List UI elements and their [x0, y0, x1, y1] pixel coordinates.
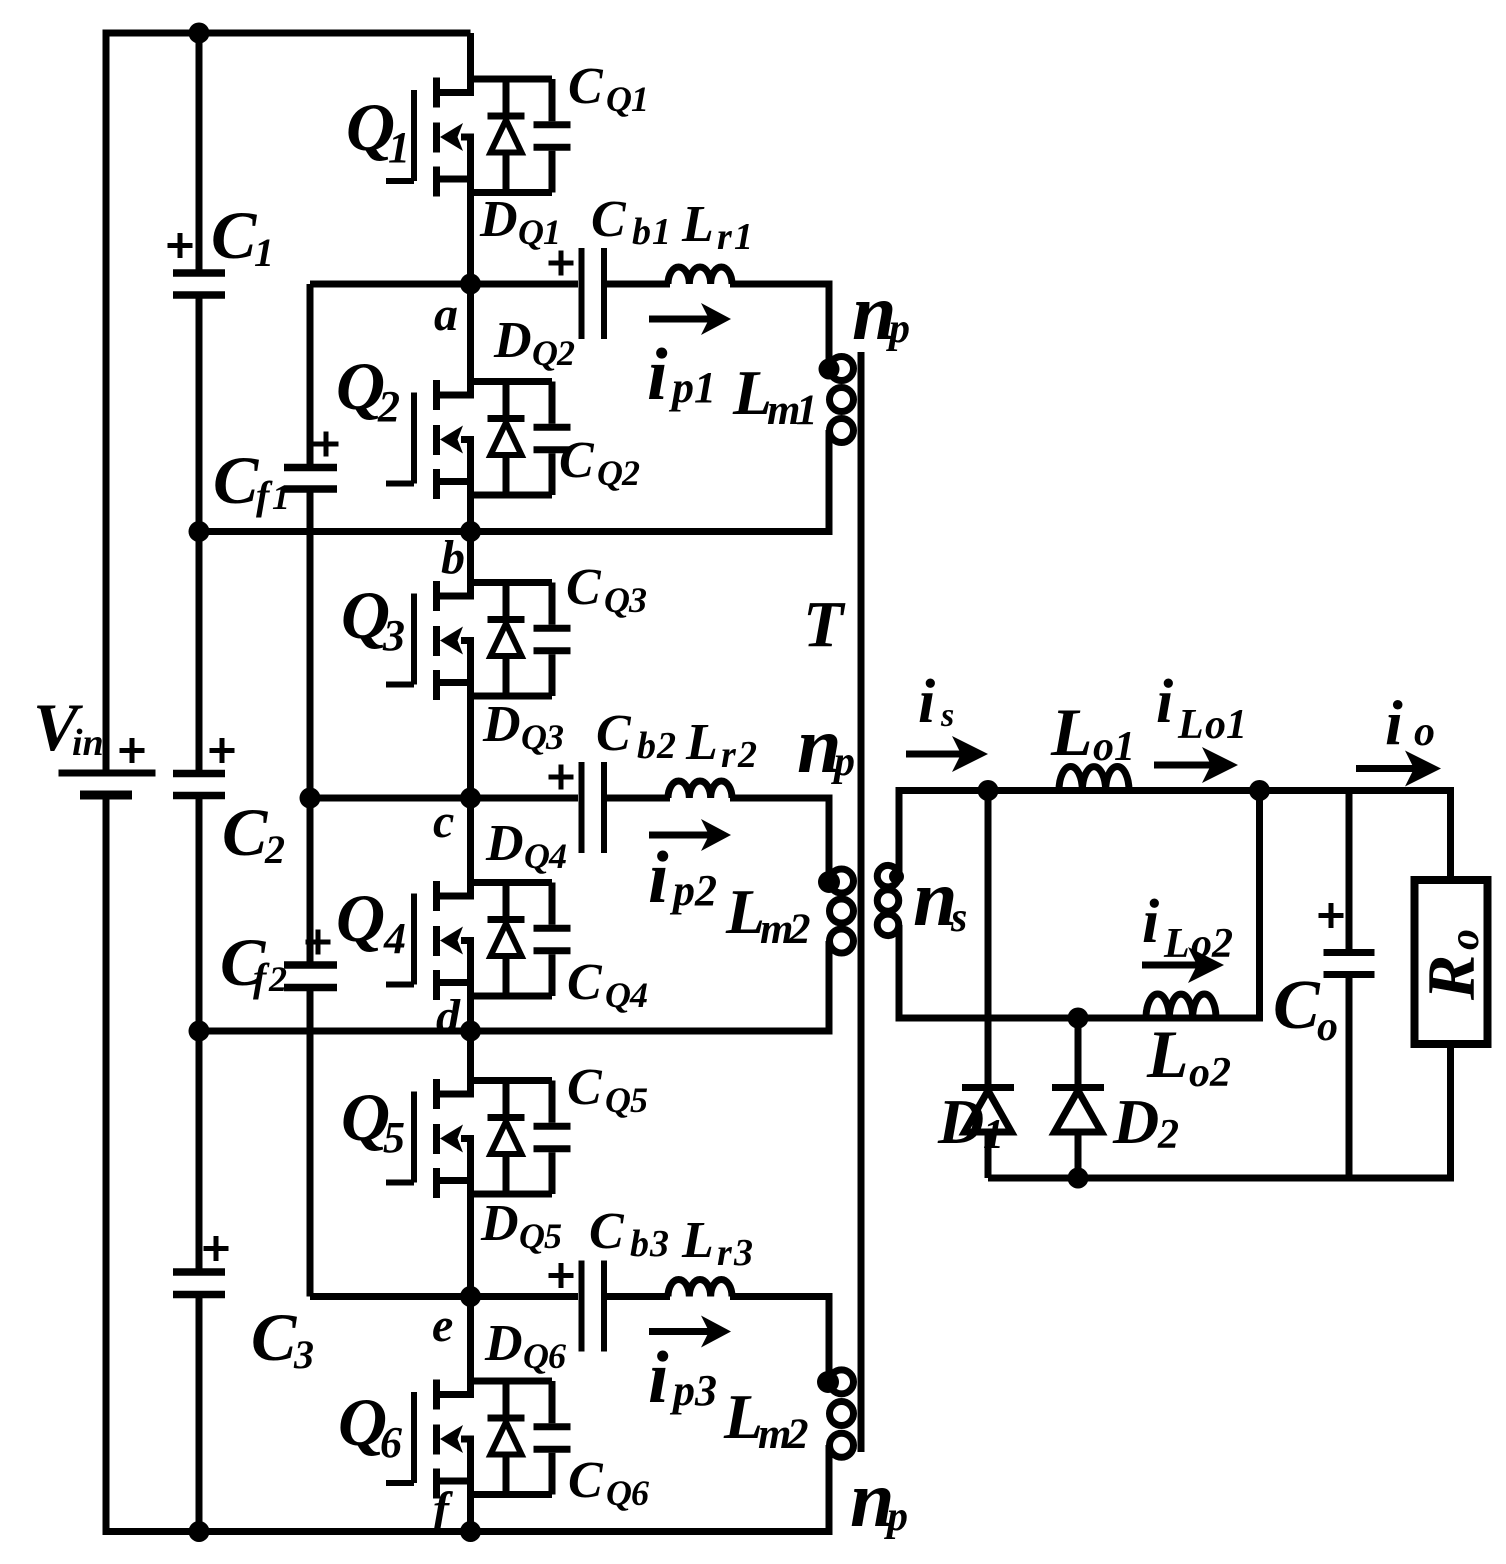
label np (top) [852, 269, 910, 357]
wire left input rail (upper) [103, 30, 110, 770]
label Lm1 [732, 357, 818, 434]
resistor Ro (load) [1415, 880, 1488, 1044]
svg-text:L: L [1163, 921, 1190, 967]
svg-text:4: 4 [548, 836, 567, 876]
wire Q6 snubber bottom rail [471, 1491, 553, 1498]
wire C rail seg3 [196, 799, 203, 1269]
svg-text:p: p [884, 1494, 908, 1540]
wire Q2 source to Q3 drain [467, 440, 474, 600]
inductor Lr2 (resonant inductor) [668, 781, 732, 798]
junction dot node b [460, 521, 481, 542]
svg-text:p: p [668, 363, 694, 412]
svg-text:5: 5 [544, 1216, 562, 1256]
wire Q3 snubber top rail [471, 579, 553, 586]
svg-text:i: i [918, 668, 935, 736]
label Q4 [336, 880, 406, 963]
svg-text:D: D [482, 696, 521, 753]
svg-text:o: o [1093, 724, 1114, 770]
inductor Lr3 (resonant inductor) [668, 1280, 732, 1297]
wire Cb2 to Lr2 [607, 795, 670, 802]
svg-text:1: 1 [1114, 724, 1135, 770]
svg-text:3: 3 [694, 1366, 717, 1415]
wire node a (Cf1 to switch rail) [310, 281, 471, 288]
wire secondary winding top lead [896, 787, 903, 877]
diode DQ6 (body diode of Q6) [488, 1381, 525, 1495]
wire secondary top rail [899, 787, 1454, 794]
current arrow iLo2 [1142, 947, 1224, 983]
label Cf1 [213, 442, 290, 518]
svg-text:2: 2 [1211, 921, 1233, 967]
wire Lo2 branch [1078, 1015, 1263, 1022]
wire Q4 source to Q5 drain [467, 941, 474, 1098]
wire node e (Cf2 to Cb3) [310, 1293, 578, 1300]
svg-text:Q: Q [519, 1216, 545, 1256]
capacitor Cb2 (blocking cap) [582, 762, 605, 853]
polarity dot np2 [818, 871, 840, 893]
wire Lo1 node down to Lo2 [1256, 791, 1263, 1019]
svg-text:1: 1 [388, 123, 410, 172]
svg-text:b: b [637, 725, 656, 767]
polarity + of Co [1319, 903, 1344, 928]
svg-text:D: D [485, 815, 524, 872]
svg-text:s: s [940, 697, 954, 734]
svg-text:4: 4 [629, 975, 648, 1015]
svg-text:C: C [591, 191, 627, 248]
polarity + of Cf1 [314, 432, 339, 457]
svg-text:3: 3 [649, 1223, 669, 1265]
svg-text:Q: Q [606, 79, 632, 119]
svg-text:Q: Q [597, 453, 623, 493]
svg-text:D: D [484, 1315, 523, 1372]
wire left input rail (lower) [103, 799, 110, 1536]
capacitor CQ4 (parallel capacitor of Q4) [534, 883, 571, 997]
wire Lr3 to primary winding [730, 1297, 829, 1383]
diode DQ5 (body diode of Q5) [488, 1081, 525, 1195]
wire Cb3 to Lr3 [607, 1293, 670, 1300]
svg-text:e: e [432, 1299, 453, 1352]
svg-text:2: 2 [788, 906, 811, 953]
diode DQ1 (body diode of Q1) [488, 79, 525, 193]
junction dot node d [460, 1021, 481, 1042]
node d [436, 990, 461, 1043]
polarity + of Cb2 [549, 765, 574, 790]
current arrow io [1356, 751, 1441, 787]
label D1 [937, 1086, 1004, 1158]
wire Q1 drain [467, 33, 474, 96]
transistor Q4 (MOSFET) [386, 881, 474, 1000]
svg-text:Q: Q [605, 1080, 631, 1120]
wire secondary bottom-left rail [896, 1015, 1079, 1022]
svg-text:3: 3 [733, 1232, 753, 1274]
capacitor Cb1 (blocking cap) [582, 248, 605, 339]
label is [918, 668, 954, 736]
wire Cf rail seg1 [307, 284, 314, 464]
wire Q2 snubber bottom rail [471, 492, 553, 499]
svg-text:2: 2 [377, 382, 400, 431]
label Q1 [346, 89, 410, 172]
svg-text:o: o [1442, 929, 1488, 950]
label CQ3 [566, 559, 647, 620]
svg-text:p: p [831, 739, 855, 785]
capacitor Co (output cap) [1324, 791, 1375, 1179]
svg-text:C: C [211, 197, 257, 273]
svg-text:2: 2 [656, 725, 676, 767]
svg-text:r: r [717, 1232, 733, 1274]
capacitor C3 [173, 1272, 225, 1295]
svg-text:o: o [1189, 1050, 1210, 1096]
svg-text:1: 1 [543, 212, 561, 252]
wire Cf rail seg3 [307, 991, 314, 1297]
wire Q5 source to Q6 drain [467, 1139, 474, 1399]
label np (bottom) [850, 1456, 908, 1544]
capacitor Cf1 (flying cap a-c) [284, 468, 337, 490]
junction dot node e [460, 1286, 481, 1307]
svg-text:1: 1 [631, 79, 649, 119]
label io [1385, 687, 1435, 758]
wire Q3 source to Q4 drain [467, 641, 474, 900]
svg-text:C: C [567, 954, 603, 1011]
svg-text:T: T [803, 588, 846, 661]
svg-text:2: 2 [786, 1411, 809, 1458]
svg-text:C: C [568, 58, 604, 115]
label Lm2 [725, 876, 811, 953]
svg-text:in: in [72, 722, 104, 764]
junction dot node c [460, 788, 481, 809]
wire Cb1 to Lr1 [607, 281, 670, 288]
svg-text:L: L [1177, 702, 1204, 748]
svg-text:6: 6 [631, 1473, 649, 1513]
capacitor CQ1 (parallel capacitor of Q1) [534, 79, 571, 193]
svg-text:c: c [433, 795, 454, 848]
svg-text:1: 1 [254, 230, 274, 275]
node f [433, 1483, 453, 1536]
svg-text:a: a [434, 288, 458, 341]
diode D1 (rectifier) [962, 791, 1014, 1179]
label np (middle) [797, 702, 855, 790]
junction dot D2 / Lo2 [1068, 1008, 1089, 1029]
svg-text:Q: Q [523, 1336, 549, 1376]
label Q5 [341, 1079, 405, 1162]
svg-text:Q: Q [336, 880, 385, 956]
svg-text:1: 1 [983, 1112, 1004, 1158]
junction dot Lo1 / output rail [1249, 780, 1270, 801]
wire Q1 snubber top rail [471, 76, 553, 83]
svg-text:C: C [596, 705, 632, 762]
wire Q1 snubber bottom rail [471, 189, 553, 196]
label ip1 [647, 334, 716, 416]
svg-text:p: p [669, 866, 695, 915]
polarity dot np3 [817, 1371, 839, 1393]
svg-text:C: C [568, 1452, 604, 1509]
wire Q4 snubber bottom rail [471, 993, 553, 1000]
wire node to Cb3 [471, 1293, 579, 1300]
svg-text:L: L [1050, 694, 1093, 770]
svg-text:p: p [669, 1366, 695, 1415]
label Lm2 (third branch) [723, 1381, 809, 1458]
wire primary winding 2 to node d [826, 941, 833, 1031]
wire Q2 snubber top rail [471, 378, 553, 385]
wire output rail right (top) [1447, 791, 1454, 881]
transistor Q1 (MOSFET) [386, 78, 474, 197]
transformer primary winding np3 [830, 1370, 854, 1457]
polarity + of Cf2 [306, 930, 331, 955]
polarity dot np1 [819, 359, 840, 380]
wire Lr1 to primary winding [730, 284, 829, 369]
svg-text:i: i [647, 334, 668, 416]
capacitor CQ3 (parallel capacitor of Q3) [534, 583, 571, 697]
wire Q5 snubber top rail [471, 1077, 553, 1084]
svg-text:1: 1 [734, 216, 753, 258]
label DQ6 [484, 1315, 566, 1376]
wire Q4 snubber top rail [471, 879, 553, 886]
battery Vin (input source) [59, 773, 156, 795]
svg-text:b: b [632, 211, 651, 253]
label DQ4 [485, 815, 567, 876]
svg-text:o: o [1205, 702, 1226, 748]
svg-text:1: 1 [694, 363, 716, 412]
svg-text:5: 5 [630, 1080, 648, 1120]
junction dot top rail / C1 [189, 23, 210, 44]
transformer secondary winding ns [877, 865, 899, 935]
capacitor Cb3 (blocking cap) [582, 1261, 605, 1352]
svg-text:2: 2 [264, 827, 285, 872]
wire secondary bottom rail [988, 1175, 1454, 1182]
svg-text:r: r [717, 216, 733, 258]
svg-text:r: r [721, 734, 737, 776]
label Lr1 [681, 196, 753, 258]
svg-text:C: C [559, 432, 595, 489]
svg-text:Q: Q [524, 836, 550, 876]
polarity + of Vin [120, 738, 145, 763]
svg-text:D: D [493, 312, 532, 369]
label Cb2 [596, 705, 676, 767]
label ns [913, 855, 967, 943]
label iLo2 [1142, 888, 1233, 967]
inductor Lr1 (resonant inductor) [668, 267, 732, 284]
transistor Q3 (MOSFET) [386, 581, 474, 700]
wire node to Cb1 [471, 281, 579, 288]
inductor Lo2 (output inductor 2) [1146, 994, 1216, 1018]
svg-text:Q: Q [518, 212, 544, 252]
polarity + of Cb3 [549, 1263, 574, 1288]
label ip3 [648, 1337, 717, 1419]
current arrow ip1 [649, 303, 731, 335]
svg-text:L: L [685, 714, 718, 771]
wire Q1 source to Q2 drain [467, 137, 474, 399]
svg-text:Q: Q [604, 580, 630, 620]
svg-text:2: 2 [621, 453, 640, 493]
wire node b rail [199, 528, 833, 535]
wire bottom rail f [106, 1528, 833, 1535]
label CQ1 [568, 58, 649, 119]
wire primary winding 3 to node f [826, 1445, 833, 1532]
node b [441, 531, 465, 584]
junction dot node f [460, 1521, 481, 1542]
junction dot D1 / top rail [978, 780, 999, 801]
wire Q5 snubber bottom rail [471, 1191, 553, 1198]
svg-text:5: 5 [383, 1113, 405, 1162]
junction dot bottom rail / C3 [189, 1521, 210, 1542]
svg-text:D: D [479, 191, 518, 248]
label Lo1 [1050, 694, 1135, 770]
wire primary winding 1 to node b [826, 430, 833, 532]
label Lr2 [685, 714, 757, 776]
svg-text:p: p [886, 306, 910, 352]
svg-text:s: s [950, 895, 967, 941]
inductor Lo1 (output inductor 1) [1059, 767, 1129, 791]
label Lr3 [681, 1212, 753, 1274]
capacitor C2 [173, 774, 225, 796]
svg-text:Q: Q [605, 975, 631, 1015]
wire C rail seg2 [196, 299, 203, 771]
svg-text:i: i [648, 837, 669, 919]
polarity dot ns [889, 869, 904, 884]
wire Q6 source to node f [467, 1439, 474, 1532]
svg-text:3: 3 [628, 580, 647, 620]
svg-text:Q: Q [606, 1473, 632, 1513]
svg-text:3: 3 [293, 1332, 314, 1377]
label Vin [33, 689, 104, 765]
label C3 [251, 1299, 314, 1377]
wire secondary winding bottom lead [896, 925, 903, 1018]
wire node c (Cf rail to Cb2) [310, 795, 578, 802]
svg-text:Q: Q [532, 333, 558, 373]
svg-text:6: 6 [380, 1418, 402, 1467]
transformer T core [858, 352, 865, 1452]
transformer primary winding np2 (Lm2) [830, 869, 854, 953]
svg-text:L: L [681, 196, 714, 253]
svg-text:b: b [630, 1223, 649, 1265]
svg-text:6: 6 [548, 1336, 566, 1376]
capacitor CQ6 (parallel capacitor of Q6) [534, 1381, 571, 1495]
label DQ2 [493, 312, 575, 373]
label Cb3 [589, 1203, 669, 1265]
current arrow ip3 [649, 1316, 731, 1348]
svg-text:2: 2 [1157, 1112, 1179, 1158]
transformer primary winding np1 (Lm1) [830, 357, 854, 443]
junction dot c / Cf rail [300, 788, 321, 809]
svg-text:2: 2 [737, 734, 757, 776]
svg-text:C: C [566, 559, 602, 616]
wire output rail right (bottom) [1447, 1044, 1454, 1178]
svg-text:3: 3 [382, 611, 405, 660]
label C1 [211, 197, 274, 275]
svg-text:i: i [1142, 888, 1159, 956]
wire Lr2 to primary winding [730, 798, 829, 882]
svg-text:Q: Q [521, 717, 547, 757]
svg-text:2: 2 [1209, 1050, 1231, 1096]
polarity + of Cb1 [549, 251, 574, 276]
label D2 [1112, 1086, 1179, 1158]
current arrow iLo1 [1154, 747, 1238, 783]
transistor Q5 (MOSFET) [386, 1079, 474, 1198]
svg-text:D: D [1112, 1086, 1159, 1157]
diode D2 (rectifier) [1052, 1018, 1104, 1178]
diode DQ4 (body diode of Q4) [488, 883, 525, 997]
svg-text:D: D [480, 1195, 519, 1252]
junction dot D2 / bottom rail [1068, 1168, 1089, 1189]
label CQ2 [559, 432, 640, 493]
label CQ5 [567, 1059, 648, 1120]
label ip2 [648, 837, 717, 919]
svg-text:1: 1 [652, 211, 671, 253]
label Ro [1413, 929, 1489, 1001]
wire node d rail [199, 1028, 833, 1035]
label CQ6 [568, 1452, 649, 1513]
polarity + of C3 [204, 1236, 229, 1261]
junction dot d / C rail [189, 1021, 210, 1042]
svg-text:D: D [937, 1086, 984, 1157]
transistor Q2 (MOSFET) [386, 380, 474, 499]
svg-text:1: 1 [1226, 702, 1247, 748]
diode DQ2 (body diode of Q2) [488, 382, 525, 496]
svg-text:o: o [1191, 921, 1212, 967]
wire Q3 snubber bottom rail [471, 693, 553, 700]
wire C rail seg4 [196, 1298, 203, 1532]
wire node to Cb2 [471, 795, 579, 802]
junction dot b / C rail [189, 521, 210, 542]
svg-text:d: d [436, 990, 461, 1043]
label CQ4 [567, 954, 648, 1015]
polarity + of C2 [210, 738, 235, 763]
capacitor CQ5 (parallel capacitor of Q5) [534, 1081, 571, 1195]
svg-text:C: C [567, 1059, 603, 1116]
svg-text:C: C [251, 1299, 297, 1375]
svg-text:2: 2 [556, 333, 575, 373]
label Cb1 [591, 191, 671, 253]
svg-text:1: 1 [796, 387, 818, 434]
diode DQ3 (body diode of Q3) [488, 583, 525, 697]
transistor Q6 (MOSFET) [386, 1380, 474, 1499]
svg-text:C: C [1273, 967, 1321, 1044]
svg-text:C: C [213, 442, 259, 518]
node e [432, 1299, 453, 1352]
capacitor C1 [173, 273, 225, 295]
svg-text:i: i [648, 1337, 669, 1419]
svg-text:i: i [1385, 687, 1403, 758]
polarity + of C1 [168, 233, 193, 258]
label T (transformer) [803, 588, 846, 661]
junction dot node a [460, 274, 481, 295]
svg-text:2: 2 [694, 866, 717, 915]
label Lo2 [1146, 1016, 1231, 1096]
label Q2 [336, 348, 400, 431]
label Co [1273, 967, 1338, 1050]
svg-text:1: 1 [272, 477, 290, 517]
svg-text:C: C [222, 794, 268, 870]
svg-text:L: L [681, 1212, 714, 1269]
svg-text:C: C [589, 1203, 625, 1260]
node a [434, 288, 458, 341]
wire C rail seg1 [196, 33, 203, 270]
wire Cf rail seg2 [307, 493, 314, 962]
svg-text:o: o [1414, 709, 1435, 755]
label DQ1 [479, 191, 561, 252]
label iLo1 [1156, 668, 1247, 748]
svg-text:o: o [1317, 1004, 1338, 1050]
label Cf2 [220, 924, 287, 1000]
capacitor Cf2 (flying cap c-e) [284, 965, 337, 988]
svg-text:2: 2 [268, 959, 287, 999]
label DQ3 [482, 696, 564, 757]
wire top input rail [106, 30, 471, 37]
svg-text:b: b [441, 531, 465, 584]
current arrow is [906, 736, 988, 772]
svg-text:4: 4 [383, 914, 406, 963]
label Q3 [341, 577, 405, 660]
svg-text:L: L [1146, 1016, 1189, 1092]
label DQ5 [480, 1195, 562, 1256]
